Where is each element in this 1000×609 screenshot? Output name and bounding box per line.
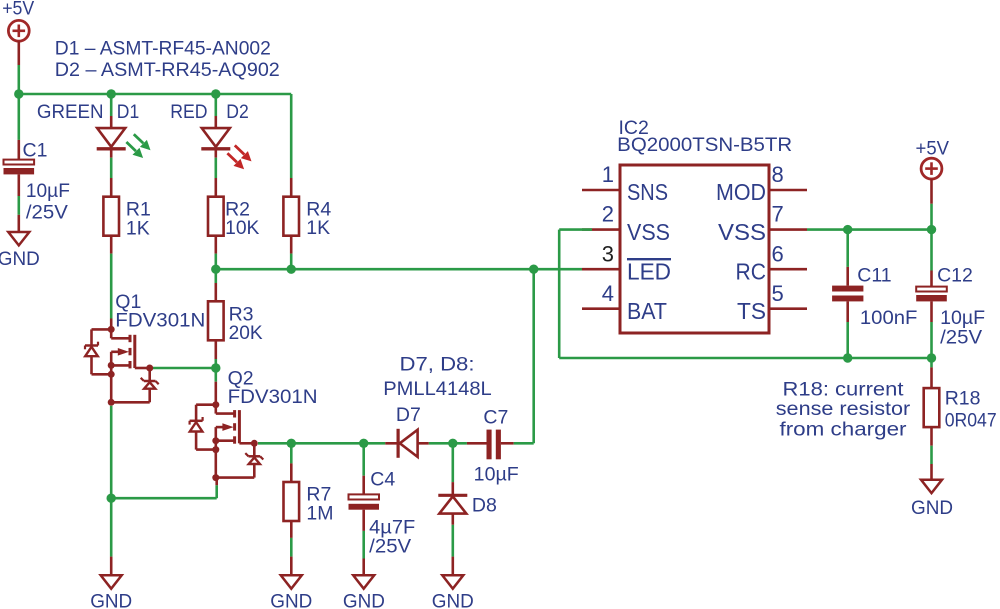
wire D1 to R1: [110, 158, 113, 178]
wire node down to Q2: [215, 368, 218, 382]
wire D1 anode pin: [110, 116, 113, 128]
svg-text:C12: C12: [937, 264, 973, 286]
node C11 bottom junction: [843, 353, 852, 362]
wire D8 anode pin: [451, 514, 454, 525]
pin 4 stub: [582, 307, 620, 310]
wire C11 top pin: [846, 267, 849, 286]
svg-text:6: 6: [772, 241, 784, 266]
wire D8 cathode pin: [451, 482, 454, 494]
LED overline: [627, 258, 671, 260]
node rail/C1 junction: [14, 89, 23, 98]
wire pin7 net: [807, 228, 932, 231]
wire top +5V rail: [19, 93, 291, 96]
svg-text:10K: 10K: [225, 217, 259, 239]
svg-text:GND: GND: [270, 590, 312, 609]
capacitor C11: [832, 286, 863, 302]
power +5V symbol (right): [921, 158, 942, 179]
svg-text:RED: RED: [170, 101, 207, 123]
svg-text:BAT: BAT: [627, 298, 667, 324]
svg-text:RC: RC: [736, 258, 767, 284]
ground (R18): [921, 480, 942, 493]
wire GND pin (R7): [290, 557, 293, 576]
svg-text:3: 3: [602, 241, 614, 266]
pin 6 stub: [769, 268, 807, 271]
node rail/D2 junction: [211, 89, 220, 98]
svg-text:LED: LED: [627, 258, 671, 284]
svg-text:D1 – ASMT-RF45-AN002: D1 – ASMT-RF45-AN002: [55, 37, 271, 59]
wire D2 cathode pin: [215, 151, 218, 158]
node C12/+5V junction: [927, 225, 936, 234]
wire rail to R4: [290, 94, 293, 178]
svg-text:SNS: SNS: [627, 179, 668, 205]
wire rail to C1: [17, 94, 20, 140]
wire corner up to LED net: [532, 269, 535, 443]
wire C1 to GND: [17, 196, 20, 215]
wire R2 to node: [215, 254, 218, 270]
wire +5V stub (red): [17, 41, 20, 65]
wire C4 bottom pin: [362, 510, 365, 531]
wire Q1 gate to node: [152, 367, 216, 370]
svg-text:GREEN: GREEN: [37, 101, 104, 123]
svg-text:10µF: 10µF: [940, 307, 985, 329]
node D8 junction: [448, 439, 457, 448]
svg-text:R18: R18: [945, 388, 981, 410]
wire C1 bottom pin: [17, 174, 20, 196]
svg-text:FDV301N: FDV301N: [228, 386, 318, 408]
capacitor C7: [487, 430, 501, 460]
wire LED net to IC pin 3: [216, 268, 582, 271]
svg-text:GND: GND: [911, 497, 953, 519]
wire node to C4: [362, 443, 365, 475]
wire GND pin: [17, 215, 20, 232]
wire GND pin (C4): [362, 559, 365, 576]
pin 3 stub: [582, 268, 620, 271]
node R7 junction: [287, 439, 296, 448]
ground (C4): [353, 575, 374, 588]
wire node to R3: [215, 269, 218, 283]
svg-text:10µF: 10µF: [474, 464, 519, 486]
wire C7 left pin: [467, 442, 487, 445]
svg-text:TS: TS: [737, 298, 766, 324]
wire +5V to node: [930, 204, 933, 230]
node R2/R3 junction: [211, 265, 220, 274]
wire C7 to corner: [514, 442, 534, 445]
svg-text:BQ2000TSN-B5TR: BQ2000TSN-B5TR: [617, 134, 792, 156]
resistor R4: [283, 197, 299, 236]
svg-text:D8: D8: [472, 494, 497, 516]
diode D8: [438, 495, 467, 513]
svg-text:/25V: /25V: [940, 327, 982, 349]
wire R3 top pin: [215, 283, 218, 301]
wire R2 bottom pin: [215, 236, 218, 254]
pin 1 stub: [582, 189, 620, 192]
svg-text:sense resistor: sense resistor: [776, 398, 911, 420]
svg-text:PMLL4148L: PMLL4148L: [383, 378, 492, 400]
svg-text:1K: 1K: [126, 217, 150, 239]
svg-text:C4: C4: [370, 469, 395, 491]
transistor Q2: [190, 401, 264, 481]
pin 2 stub: [582, 228, 620, 231]
node R4 junction: [287, 265, 296, 274]
wire node to C12: [930, 230, 933, 271]
wire R3 bottom pin: [215, 341, 218, 359]
wire bottom VSS rail: [559, 357, 931, 360]
pin 7 stub: [769, 228, 807, 231]
wire rail to D2: [215, 94, 218, 116]
power +5V symbol (left): [8, 20, 29, 41]
wire C12 to rail: [930, 322, 933, 358]
wire D2 to R2: [215, 158, 218, 178]
node C7 branch junction: [529, 265, 538, 274]
wire R3 to Q2 node: [215, 359, 218, 368]
svg-text:VSS: VSS: [718, 219, 766, 245]
svg-text:100nF: 100nF: [860, 307, 918, 329]
diode D7: [385, 429, 428, 458]
wire Q2 source pin: [215, 478, 218, 486]
resistor R18: [924, 388, 940, 427]
ground (R7): [281, 575, 302, 588]
svg-text:D1: D1: [117, 101, 139, 123]
svg-text:4: 4: [602, 281, 614, 306]
wire D7 to C7: [429, 442, 467, 445]
pin 8 stub: [769, 189, 807, 192]
wire D2 anode pin: [215, 116, 218, 128]
svg-text:FDV301N: FDV301N: [115, 309, 205, 331]
wire R1 bottom pin: [110, 236, 113, 254]
svg-text:0R047: 0R047: [945, 410, 997, 432]
svg-text:7: 7: [772, 202, 784, 227]
resistor R1: [103, 197, 119, 236]
svg-text:GND: GND: [0, 248, 40, 270]
wire R18 bottom pin: [930, 427, 933, 445]
wire +5V to rail: [17, 65, 20, 94]
wire node to C11: [846, 230, 849, 267]
node Q1/Q2 source junction: [107, 494, 116, 503]
wire C11 bottom pin: [846, 301, 849, 322]
wire node to D8: [451, 443, 454, 482]
svg-text:/25V: /25V: [369, 535, 411, 557]
wire R18 top pin: [930, 367, 933, 388]
svg-text:20K: 20K: [229, 322, 263, 344]
wire rail to R18: [930, 358, 933, 367]
wire Q2 gate net left part: [258, 442, 385, 445]
wire node to R7: [290, 443, 293, 463]
svg-text:5: 5: [772, 281, 784, 306]
wire rail to D1: [110, 94, 113, 116]
svg-text:C7: C7: [483, 407, 508, 429]
wire C12 bottom pin: [930, 301, 933, 322]
svg-text:+5V: +5V: [916, 137, 950, 159]
wire D1 cathode pin: [110, 151, 113, 158]
wire C1 top pin: [17, 140, 20, 160]
wire Q1 source down: [110, 406, 113, 498]
node C11 top junction: [843, 225, 852, 234]
wire pin2 to corner: [559, 228, 592, 231]
svg-text:from charger: from charger: [780, 419, 908, 441]
wire source link: [111, 497, 217, 500]
svg-text:D2 – ASMT-RR45-AQ902: D2 – ASMT-RR45-AQ902: [55, 59, 280, 81]
svg-text:C1: C1: [23, 139, 48, 161]
capacitor C4 (polarized): [349, 494, 380, 509]
wire VSS vertical: [558, 230, 561, 358]
wire up to Q2 source: [215, 485, 218, 498]
node C4 junction: [359, 439, 368, 448]
op-amp U1 IC2 body: [620, 165, 769, 333]
svg-text:D7: D7: [396, 404, 421, 426]
wire GND pin (Q1): [110, 557, 113, 576]
transistor Q1: [85, 326, 159, 406]
svg-text:D2: D2: [226, 101, 249, 123]
svg-text:2: 2: [602, 202, 614, 227]
svg-text:VSS: VSS: [627, 219, 670, 245]
wire C12 top pin: [930, 271, 933, 287]
wire R7 top pin: [290, 463, 293, 482]
LED D2 (red): [201, 128, 251, 169]
wire R7 bottom pin: [290, 522, 293, 538]
capacitor C12 (polarized): [916, 287, 947, 302]
wire R1 top pin: [110, 178, 113, 197]
capacitor C1 (polarized): [4, 160, 35, 175]
svg-text:1K: 1K: [306, 217, 330, 239]
resistor R7: [284, 482, 300, 521]
wire C4 top pin: [362, 476, 365, 495]
svg-text:MOD: MOD: [716, 179, 766, 205]
wire GND pin (R18): [930, 464, 933, 480]
svg-text:C11: C11: [857, 264, 891, 286]
svg-text:/25V: /25V: [26, 202, 68, 224]
resistor R2: [208, 197, 224, 236]
wire GND pin (D8): [451, 557, 454, 576]
ground (Q1/Q2): [101, 575, 122, 588]
wire to GND (Q1): [110, 498, 113, 556]
wire C11 to rail: [846, 322, 849, 358]
wire R18 to GND: [930, 446, 933, 464]
svg-text:+5V: +5V: [2, 0, 34, 20]
wire R1 to Q1 drain: [110, 254, 113, 319]
svg-text:GND: GND: [90, 590, 132, 609]
wire C7 right pin: [501, 442, 514, 445]
wire R2 top pin: [215, 178, 218, 197]
wire C4 to GND: [362, 531, 365, 559]
wire R4 bottom pin: [290, 236, 293, 254]
wire Q1 drain pin: [110, 319, 113, 330]
wire +5V stub (right): [930, 179, 933, 204]
wire Q2 drain pin: [215, 382, 218, 405]
svg-text:GND: GND: [432, 590, 474, 609]
svg-text:10µF: 10µF: [26, 180, 70, 202]
ground (D8): [442, 575, 463, 588]
ground (C1): [8, 232, 29, 245]
wire R4 top pin: [290, 178, 293, 197]
svg-text:1M: 1M: [306, 502, 333, 524]
svg-text:1: 1: [602, 162, 614, 187]
svg-text:GND: GND: [343, 590, 385, 609]
pin 5 stub: [769, 307, 807, 310]
svg-text:8: 8: [772, 162, 784, 187]
resistor R3: [208, 301, 224, 340]
node C12/R18 junction: [927, 353, 936, 362]
LED D1 (green): [97, 128, 151, 158]
wire R7 to GND: [290, 538, 293, 557]
wire D8 to GND: [451, 525, 454, 557]
svg-text:D7, D8:: D7, D8:: [400, 354, 475, 376]
wire R4 to node: [290, 254, 293, 270]
node R3/Q1 gate/Q2 drain: [211, 363, 220, 372]
node rail/D1 junction: [107, 89, 116, 98]
